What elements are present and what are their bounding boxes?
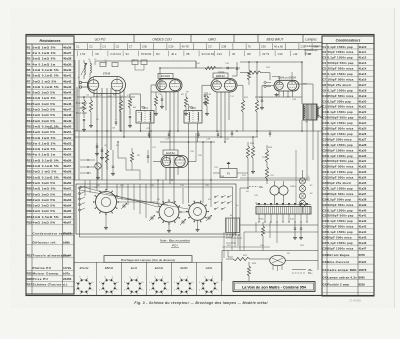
- antenna coil L1: [81, 60, 87, 79]
- wire bus y225: [240, 224, 318, 226]
- ground wafer S1: [104, 226, 108, 230]
- wire transformer drops: [240, 120, 313, 204]
- left parts table (Résistances): [26, 36, 74, 294]
- wire bus y250: [222, 250, 318, 252]
- faint stamp: [349, 299, 361, 303]
- wire bus y131: [74, 130, 322, 132]
- note text bloc en position PO: [160, 239, 190, 248]
- resistor R3: [89, 97, 93, 128]
- legend line samples: [292, 268, 313, 275]
- resistor R10 top: [205, 66, 234, 69]
- wire MF2: [189, 104, 198, 203]
- mid area contacts: [80, 141, 149, 180]
- wire top rail y61: [95, 60, 196, 70]
- tube V1 6TH8: [88, 72, 126, 94]
- resistor R22 pickup: [226, 257, 270, 260]
- resistor R20: [261, 222, 264, 251]
- bottom band header: [104, 256, 192, 263]
- wire bus y180: [74, 179, 310, 181]
- capacitor small 5: [231, 130, 233, 137]
- switch wafer S1: [93, 189, 119, 215]
- wire wafer connections: [151, 110, 211, 207]
- wire top AF rail: [160, 61, 240, 92]
- wire V5 pins: [153, 133, 196, 184]
- wire power low area: [244, 222, 318, 251]
- wire right rail: [317, 131, 319, 225]
- capacitor C8: [100, 147, 104, 160]
- capacitor small 6: [269, 130, 271, 137]
- resistor R8: [205, 92, 209, 116]
- junction dots: [83, 61, 303, 189]
- wire V2 pins: [151, 85, 178, 202]
- resistor R13: [246, 142, 249, 188]
- tube V3 EBF42: [211, 73, 237, 92]
- potentiometer P2 volume: [95, 163, 101, 180]
- capacitor C16: [203, 92, 207, 105]
- border frame: [26, 35, 374, 296]
- wire bus y97a: [77, 96, 135, 98]
- wire MF1: [130, 94, 150, 137]
- micro labels: [78, 59, 313, 265]
- wire tuning block internal: [85, 180, 198, 229]
- capacitor C6: [95, 143, 99, 156]
- resistor R14: [251, 137, 255, 174]
- transformer lead arrows: [258, 203, 308, 221]
- capacitor C22: [260, 97, 264, 110]
- wire PU area: [222, 232, 270, 258]
- capacitor C14: [160, 95, 164, 109]
- ground wafer S3: [196, 228, 200, 232]
- capacitor small 4: [217, 131, 219, 138]
- IF transformer MF1: [136, 106, 154, 123]
- wire amp loop: [222, 225, 318, 281]
- shield box tuning block: [76, 184, 236, 237]
- resistor R9: [184, 93, 188, 116]
- power transformer: [256, 205, 311, 215]
- resistor R12: [255, 62, 258, 137]
- capacitor small 3: [197, 131, 199, 138]
- capacitor small 0: [115, 119, 117, 126]
- ground wafer S2: [167, 229, 171, 233]
- switch contacts left column: [78, 186, 85, 211]
- tube V5 EAF42: [161, 150, 188, 168]
- switch contacts: [214, 196, 231, 210]
- trimmer capacitors: [121, 203, 212, 225]
- wire transformer secondary leads: [258, 214, 307, 223]
- wire tube top caps: [218, 72, 292, 80]
- capacitor small 1: [148, 131, 150, 138]
- resistor R24: [247, 262, 250, 281]
- IF transformer MF2: [184, 106, 202, 123]
- handwritten annotations: [48, 101, 88, 130]
- potentiometer P1: [213, 162, 264, 189]
- wire V4 pins: [262, 86, 293, 98]
- tube V4 EM34: [274, 76, 299, 92]
- wire V1 pins down: [94, 88, 124, 190]
- output transformer: [303, 104, 317, 120]
- switch wafer S3: [186, 201, 209, 223]
- tube socket EM34: [174, 266, 193, 297]
- capacitor C18: [232, 62, 238, 76]
- resistor R11: [241, 86, 244, 132]
- resistor R4: [119, 97, 122, 131]
- rectifier tube GZ40: [270, 181, 288, 205]
- tube socket ECH42: [74, 266, 93, 297]
- resistor R15 top: [247, 61, 250, 85]
- speaker: [318, 106, 323, 119]
- bottom band dividers: [74, 262, 222, 295]
- wire B+ to bus: [240, 188, 248, 251]
- antenna coil L2: [90, 60, 91, 79]
- antenna input terminals: [75, 60, 88, 180]
- tube socket EL41: [124, 266, 143, 297]
- capacitor C28: [299, 222, 303, 240]
- top header band: [74, 35, 322, 57]
- dial lamps: [299, 170, 305, 213]
- tube socket EBF42: [99, 266, 118, 297]
- motor box: [226, 218, 240, 233]
- wire V3 pins: [202, 85, 243, 142]
- dial cord: [80, 186, 188, 209]
- caption: [134, 301, 268, 305]
- wire stub: [107, 141, 160, 143]
- wire bus y97b: [255, 96, 302, 98]
- capacitor C27: [293, 222, 297, 240]
- resistor R6 + capacitor C9: [128, 94, 132, 128]
- title box: [233, 282, 315, 292]
- tube socket EAF42: [149, 266, 168, 297]
- wire EM34 feed: [240, 71, 313, 104]
- resistor R5: [105, 150, 108, 170]
- tube V2 ECH42: [156, 73, 182, 92]
- right parts table (Condensateurs): [322, 36, 374, 296]
- tube socket GZ41: [199, 266, 218, 297]
- wire left rail: [78, 60, 80, 180]
- wire bus y137: [74, 136, 258, 138]
- switch wafer S2: [156, 199, 181, 224]
- wire bus y142: [160, 141, 215, 143]
- capacitor small 2: [168, 131, 170, 138]
- wire output transformer feeds: [240, 62, 313, 131]
- resistor R2 + capacitor C4: [82, 97, 86, 132]
- pickup PU: [270, 255, 318, 271]
- resistor R7: [151, 92, 162, 116]
- resistor chain R16 R17: [265, 145, 268, 184]
